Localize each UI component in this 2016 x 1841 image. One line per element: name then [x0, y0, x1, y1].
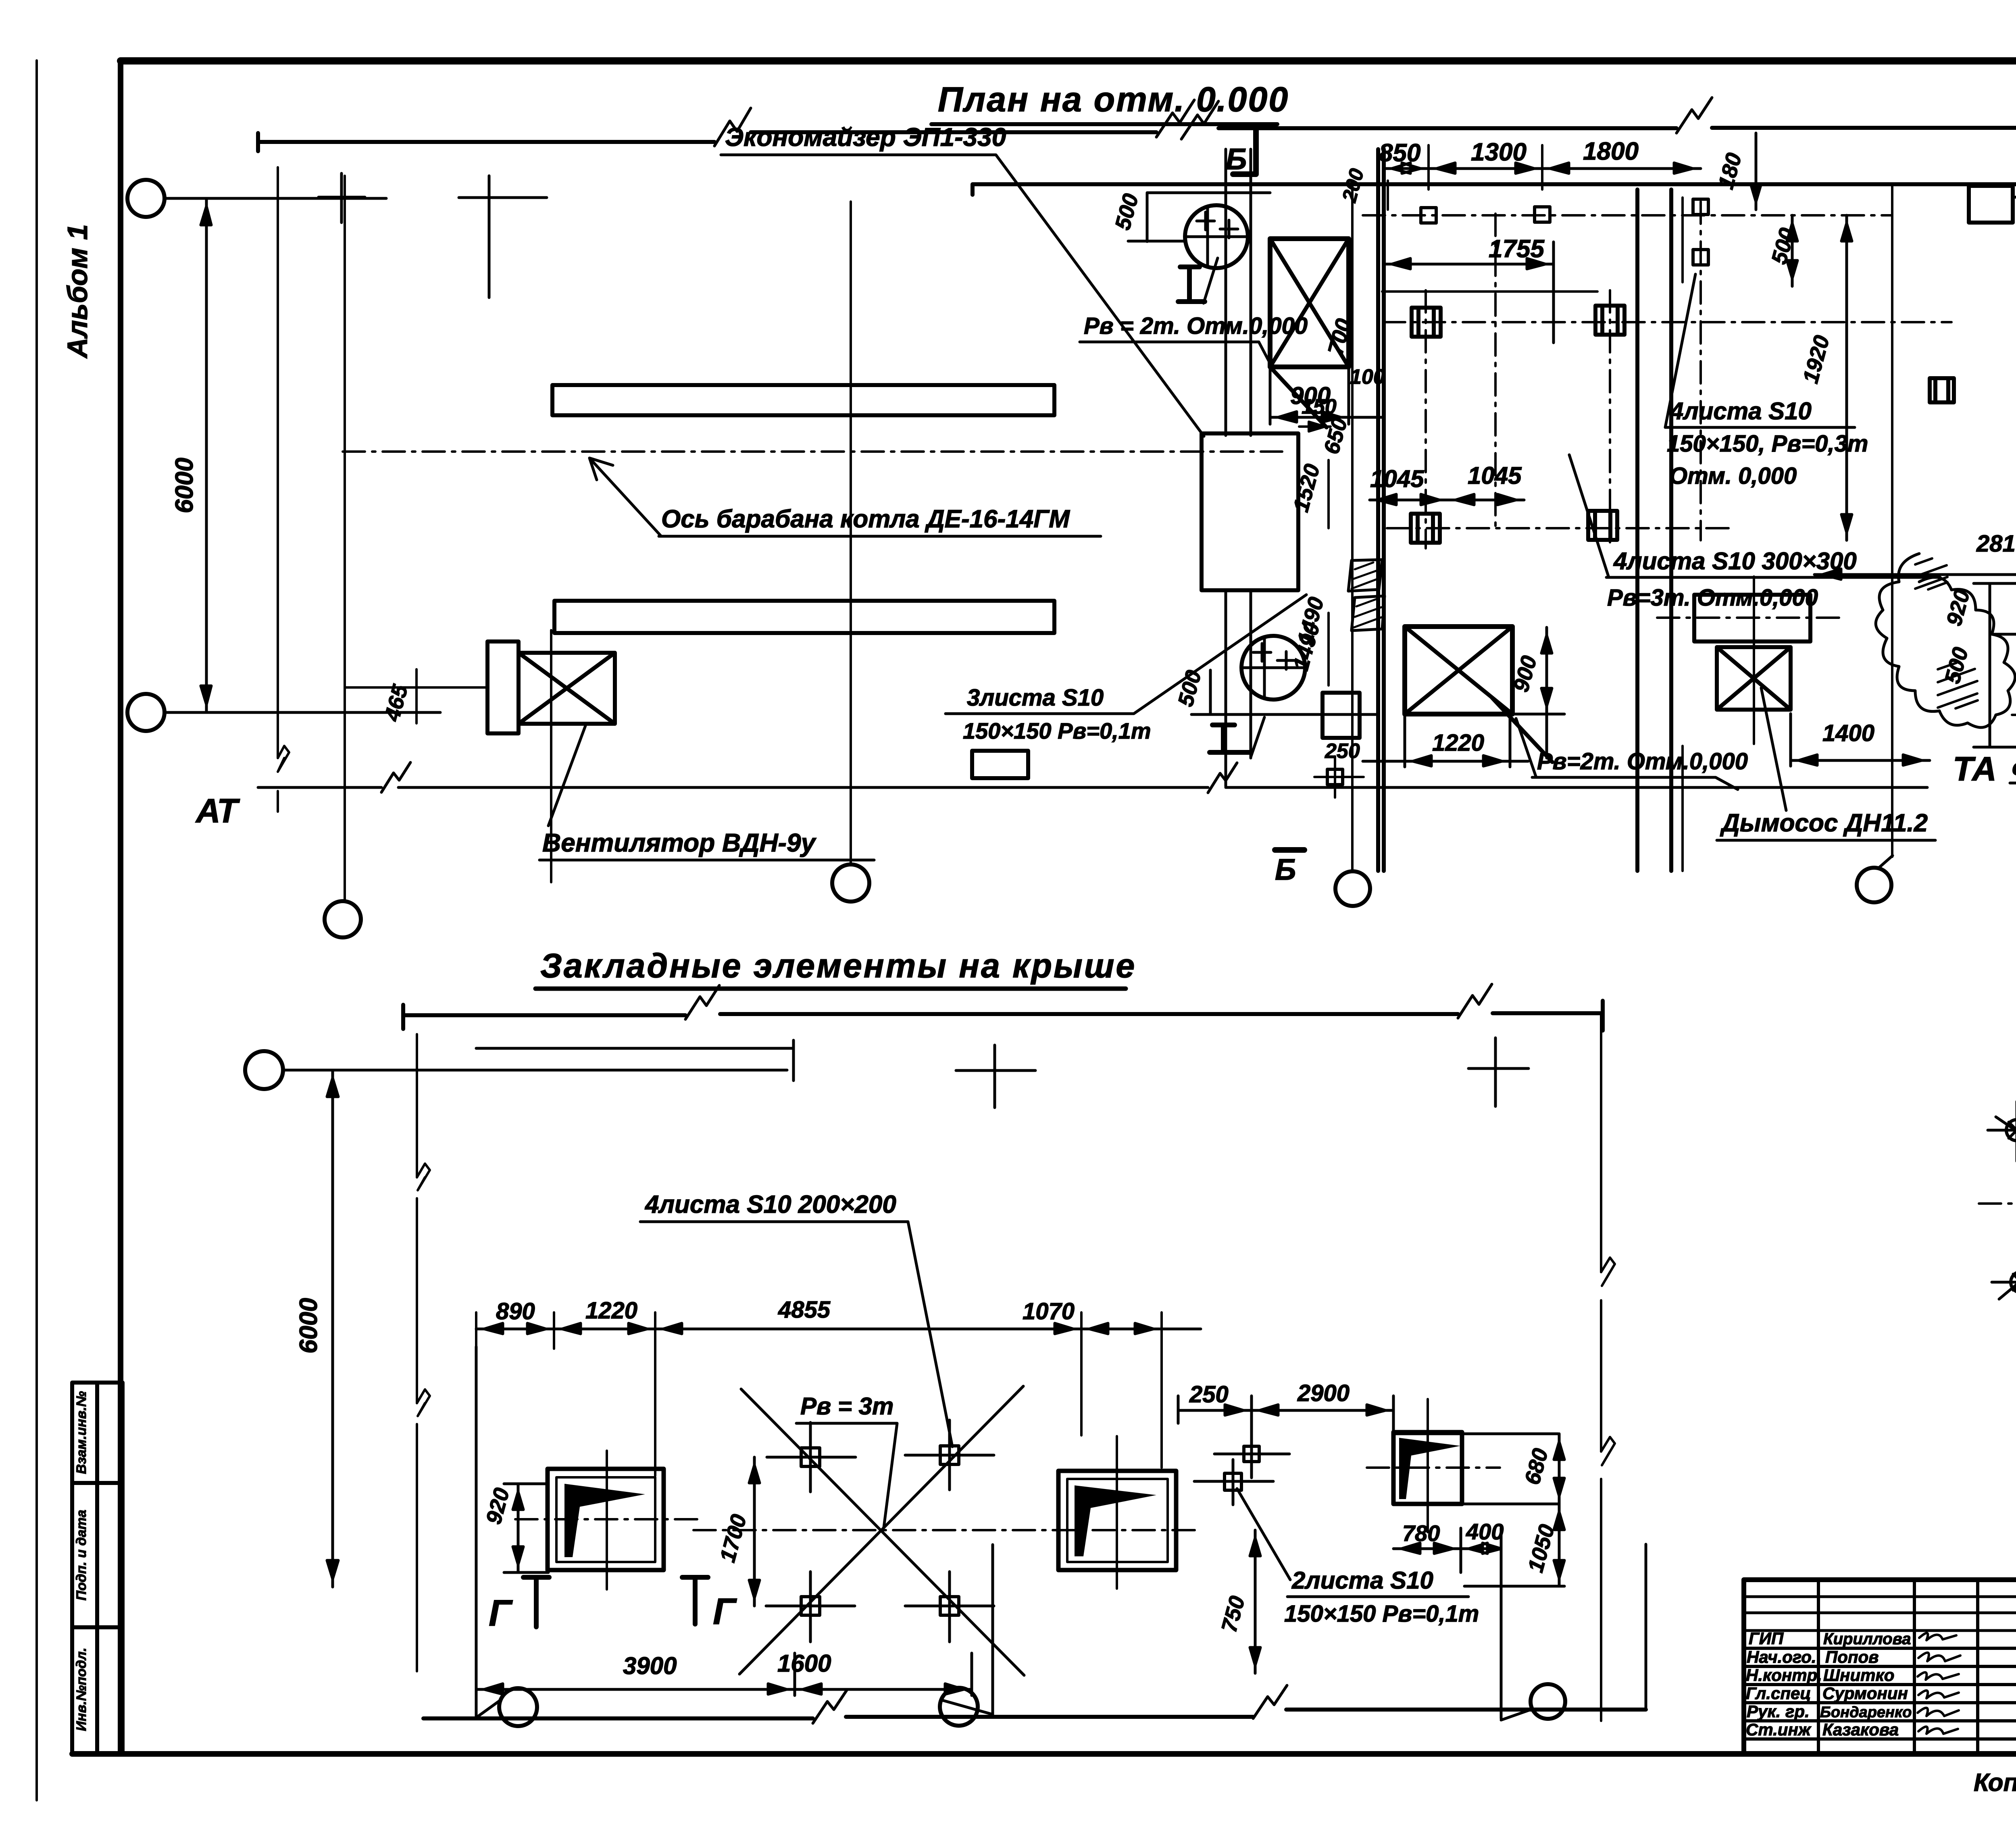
svg-text:1070: 1070 [1023, 1298, 1075, 1325]
svg-text:Копировал: Копировал [1974, 1769, 2016, 1797]
svg-text:780: 780 [1402, 1520, 1440, 1546]
equip rect with X [1270, 239, 1349, 367]
hatch patch 1 [1915, 558, 1947, 589]
hatch patch 2 [1938, 663, 1978, 708]
svg-text:6000: 6000 [295, 1298, 323, 1354]
plate G1 double square [548, 1469, 664, 1570]
svg-text:Экономайзер ЭП1-330: Экономайзер ЭП1-330 [725, 123, 1006, 152]
svg-text:Шнитко: Шнитко [1823, 1666, 1894, 1685]
outer thin left line [35, 60, 38, 1800]
bottom line [423, 1710, 1646, 1718]
svg-text:см. узел II: см. узел II [2012, 754, 2016, 780]
svg-text:Казакова: Казакова [1822, 1720, 1899, 1739]
axis circle roof bottom 1 [499, 1688, 537, 1726]
svg-text:Закладные элементы на крыше: Закладные элементы на крыше [540, 947, 1136, 985]
dim 750 [1250, 1530, 1260, 1673]
dim row 850 1300 1800 [1384, 163, 1701, 173]
I-beam section mark [1178, 267, 1205, 302]
svg-text:2листа S10: 2листа S10 [1291, 1567, 1433, 1594]
boiler axis dash-dot [343, 450, 1282, 453]
wall verticals left of B [1226, 149, 1251, 786]
wall double line right [1378, 149, 1384, 871]
svg-text:1600: 1600 [777, 1650, 831, 1677]
plate G2 centerline [1116, 1436, 1118, 1589]
studs pair [1225, 1446, 1259, 1490]
center dashdot [1979, 1202, 2016, 1205]
dymosos fan rect [1717, 647, 1791, 710]
dim 780 400 [1393, 1528, 1501, 1572]
cross roof 1 [956, 1045, 1035, 1108]
svg-text:250: 250 [1325, 739, 1360, 763]
svg-text:150: 150 [1302, 395, 1337, 419]
anchor bolt 1 [2006, 1120, 2016, 1141]
big X [739, 1386, 1024, 1675]
cross roof 2 [1468, 1038, 1529, 1106]
svg-text:1045: 1045 [1468, 462, 1522, 489]
svg-text:Альбом 1: Альбом 1 [62, 224, 93, 359]
plate G3 square [1393, 1432, 1462, 1504]
svg-text:Нач.ого.: Нач.ого. [1747, 1647, 1816, 1666]
svg-text:Рв = 2т. Отм.0,000: Рв = 2т. Отм.0,000 [1084, 313, 1308, 339]
stamp strip [72, 1383, 123, 1754]
grid line [344, 176, 346, 901]
cross [459, 176, 547, 298]
fan VDN symbol [487, 641, 615, 733]
X diagonals [1996, 1117, 2016, 1299]
beam bar 2 [554, 601, 1054, 633]
dim 1700 [749, 1457, 760, 1606]
top wall line with breaks [258, 133, 714, 151]
break grid line right [1600, 1014, 1602, 1721]
svg-text:890: 890 [496, 1298, 535, 1325]
axis circle roof bottom 2 [940, 1688, 978, 1726]
plate G1 centerlines [606, 1451, 608, 1589]
svg-text:150×150 Рв=0,1т: 150×150 Рв=0,1т [963, 718, 1151, 743]
verticals [476, 1347, 1646, 1718]
dim 900 [1270, 367, 1349, 424]
flag black 3 [1399, 1438, 1460, 1499]
line2 [476, 1040, 793, 1081]
signature scribbles [1919, 1633, 1956, 1640]
axis circle A-row top [127, 180, 165, 217]
stud cross ticks [766, 1420, 994, 1642]
svg-text:АТ: АТ [195, 792, 240, 830]
svg-text:ГИП: ГИП [1749, 1629, 1784, 1648]
dashdot y799 [1383, 321, 1951, 323]
dim 6000 roof [327, 1070, 338, 1587]
grid line [277, 167, 279, 812]
flag black 2 [1075, 1485, 1156, 1556]
axis circle bottom 2 [832, 864, 869, 902]
dim 900 mid [1512, 627, 1564, 758]
center dashdot roof [694, 1529, 1201, 1531]
plate G2 double square [1058, 1471, 1176, 1570]
wall hatch piece 2 [1352, 596, 1385, 631]
svg-text:Рв=2т. Отм.0,000: Рв=2т. Отм.0,000 [1537, 748, 1748, 775]
flag black [564, 1484, 645, 1557]
svg-text:Гл.спец: Гл.спец [1746, 1684, 1811, 1703]
fan circle C1 [1185, 205, 1248, 268]
svg-text:Сурмонин: Сурмонин [1822, 1684, 1908, 1703]
small plate rect [972, 751, 1028, 778]
dim 3900 1600 [476, 1653, 972, 1695]
leader to label [1237, 1489, 1290, 1580]
dim 920 roof [504, 1484, 548, 1572]
wire [165, 197, 386, 200]
section mark B top [1233, 129, 1256, 174]
equip rect with X mid [1405, 627, 1512, 714]
line y723 [1382, 290, 1597, 293]
wall hatch piece 1 [1348, 560, 1382, 591]
anchor bolt 3 [2011, 1272, 2016, 1293]
leader [1204, 258, 1218, 303]
small squares top row [1421, 199, 1708, 265]
axis to circle3 [1351, 183, 1354, 872]
dim 1045 1045 [1370, 494, 1524, 505]
frame top [121, 57, 2016, 65]
svg-text:Г: Г [489, 1593, 513, 1634]
dim 500 c2 [1191, 670, 1378, 714]
RIGHT DETAILS [1979, 170, 2016, 1484]
svg-text:План на отм. 0.000: План на отм. 0.000 [938, 80, 1289, 119]
plate G3 frame lines [1393, 1396, 1564, 1586]
economizer block [1202, 433, 1298, 590]
stud squares row3 [1411, 514, 1440, 543]
axis to circle2 [850, 202, 852, 864]
break grid line [416, 1034, 418, 1671]
beam bar 1 [552, 385, 1054, 415]
svg-text:Подп. и дата: Подп. и дата [74, 1510, 89, 1600]
cross [319, 173, 365, 223]
dim 1220 [1363, 716, 1528, 767]
wall opening cloud [1876, 554, 2015, 727]
svg-text:4листа S10 300×300: 4листа S10 300×300 [1613, 548, 1857, 575]
stud squares row2 [1412, 308, 1441, 337]
svg-text:1400: 1400 [1822, 720, 1874, 746]
stud group 4 [801, 1446, 959, 1615]
dim chain 890 1220 4855 1070 [476, 1323, 1201, 1334]
svg-text:3900: 3900 [623, 1652, 677, 1679]
dim 465 [345, 669, 487, 723]
dashdot y534 [1363, 214, 1891, 217]
axis circle roof bottom 3 [1531, 1684, 1565, 1719]
svg-text:1045: 1045 [1370, 465, 1425, 492]
svg-text:Ось барабана котла ДЕ-16-14ГМ: Ось барабана котла ДЕ-16-14ГМ [661, 505, 1070, 533]
svg-text:1755: 1755 [1489, 235, 1545, 263]
svg-text:4листа S10: 4листа S10 [1670, 398, 1812, 425]
svg-text:Инв.№подл.: Инв.№подл. [74, 1647, 89, 1731]
svg-text:1220: 1220 [585, 1297, 637, 1324]
svg-text:4листа S10 200×200: 4листа S10 200×200 [644, 1191, 896, 1218]
svg-text:1300: 1300 [1471, 138, 1527, 166]
I-beam section mark 2 [1210, 725, 1250, 752]
A axis line [258, 786, 1927, 789]
svg-text:Рв = 3т: Рв = 3т [800, 1393, 893, 1420]
svg-text:Б: Б [1226, 142, 1247, 176]
axis circle roof left top [245, 1051, 283, 1089]
svg-text:Кириллова: Кириллова [1823, 1630, 1911, 1648]
axis circle bottom 4 [1857, 868, 1891, 902]
top right column rect [1969, 186, 2013, 223]
frame bottom [72, 1751, 2016, 1757]
wire [283, 1069, 787, 1072]
svg-text:Отм. 0,000: Отм. 0,000 [1669, 463, 1797, 489]
fan circle C2 [1241, 636, 1305, 700]
section mark B bottom [1275, 847, 1304, 853]
second wall line [973, 184, 2016, 195]
svg-text:Вентилятор ВДН-9у: Вентилятор ВДН-9у [542, 828, 817, 857]
ROOF DRAWING [245, 378, 1954, 1726]
svg-text:Рук. гр.: Рук. гр. [1747, 1702, 1810, 1721]
svg-text:Н.контр.: Н.контр. [1746, 1666, 1822, 1685]
svg-text:1220: 1220 [1432, 730, 1484, 756]
svg-text:Взам.инв.№: Взам.инв.№ [74, 1391, 89, 1474]
dashdot y1310 [1387, 527, 1734, 529]
svg-text:Дымосос ДН11.2: Дымосос ДН11.2 [1720, 809, 1928, 837]
svg-text:Ст.инж: Ст.инж [1746, 1720, 1812, 1739]
svg-text:850: 850 [1379, 139, 1420, 167]
svg-text:Бондаренко: Бондаренко [1820, 1704, 1912, 1721]
frame left [118, 61, 123, 1754]
wire [165, 711, 440, 714]
dim 680 1050 [1554, 1434, 1564, 1586]
top line with breaks [403, 1005, 685, 1029]
wall small rect [1322, 693, 1360, 738]
dim 6000 left [201, 198, 211, 712]
svg-text:4855: 4855 [778, 1297, 831, 1323]
svg-text:2810: 2810 [1976, 531, 2016, 557]
wall band verticals [1637, 190, 1671, 871]
svg-text:150×150, Рв=0,3т: 150×150, Рв=0,3т [1667, 431, 1868, 457]
signature table [1744, 1580, 2016, 1754]
dim 250 2900 [1178, 1396, 1393, 1429]
dashdot verticals [1426, 202, 1701, 548]
svg-text:250: 250 [1189, 1381, 1229, 1408]
TOP PLAN [127, 80, 2016, 937]
svg-text:150×150 Рв=0,1т: 150×150 Рв=0,1т [1284, 1601, 1479, 1627]
axis circle left lower [127, 694, 165, 731]
svg-text:2900: 2900 [1297, 1380, 1350, 1406]
svg-text:ТА: ТА [1953, 750, 1997, 788]
dymosos upper rect [1694, 595, 1810, 641]
svg-text:3листа S10: 3листа S10 [967, 685, 1104, 711]
leader down to circle [1501, 1554, 1531, 1720]
svg-text:400: 400 [1466, 1519, 1504, 1544]
svg-text:1800: 1800 [1583, 137, 1639, 165]
TITLE BLOCK [1744, 1580, 2016, 1797]
small stud on wall [1327, 769, 1343, 785]
axis circle bottom 1 [325, 901, 361, 937]
axis x4693 [1891, 183, 1893, 857]
svg-text:6000: 6000 [171, 458, 198, 513]
svg-text:Б: Б [1275, 853, 1296, 886]
svg-text:Г: Г [713, 1591, 737, 1632]
plate G3 centerlines [1427, 1399, 1429, 1532]
mark TG [682, 1577, 708, 1624]
axis circle bottom 3 [1335, 871, 1370, 906]
svg-text:Попов: Попов [1825, 1647, 1879, 1666]
stud square right [1930, 378, 1954, 402]
dim 1755 [1384, 242, 1554, 343]
dim 500 top [1128, 193, 1270, 242]
